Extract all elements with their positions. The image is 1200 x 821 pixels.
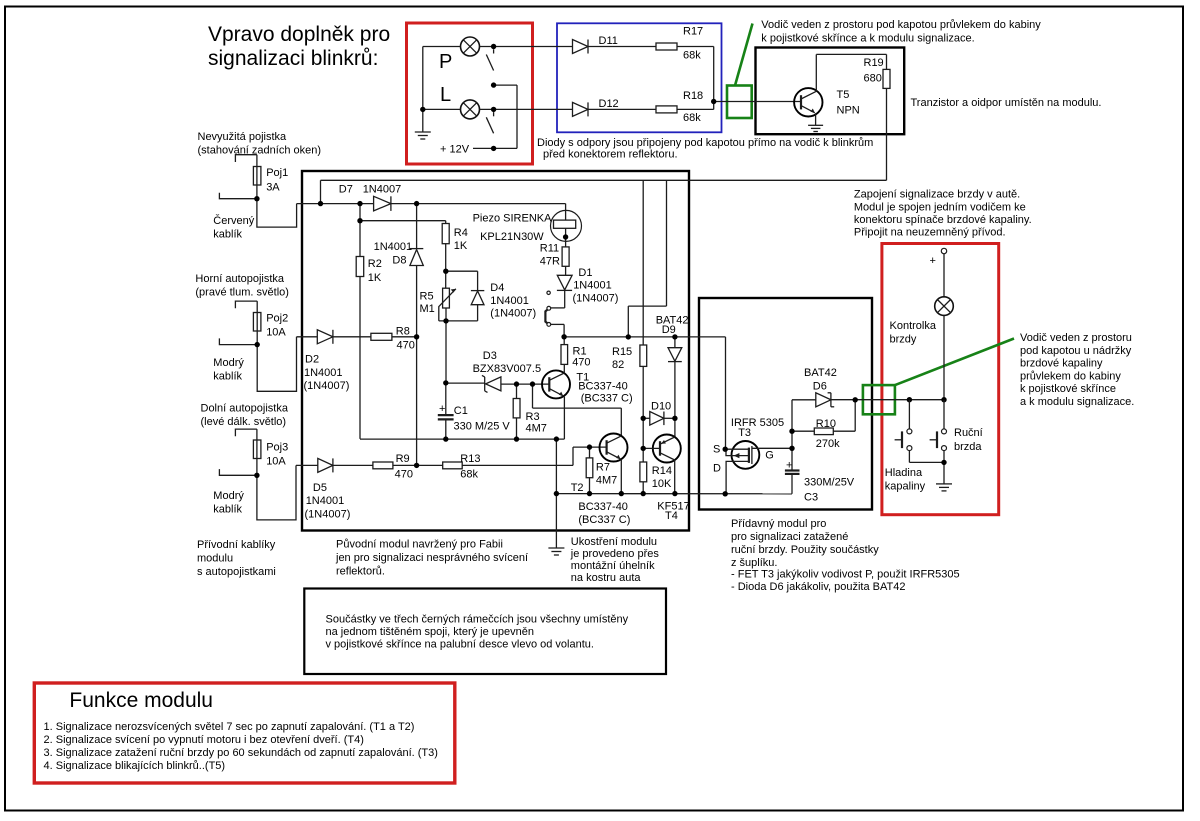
svg-text:(1N4007): (1N4007) — [304, 380, 350, 392]
svg-text:D1: D1 — [578, 267, 592, 279]
svg-text:D7: D7 — [339, 184, 353, 196]
svg-text:R4: R4 — [454, 227, 468, 239]
svg-text:T3: T3 — [738, 427, 751, 439]
svg-text:- FET T3 jakýkoliv vodivost P,: - FET T3 jakýkoliv vodivost P, použit IR… — [731, 569, 960, 581]
svg-text:M1: M1 — [420, 303, 435, 315]
svg-text:pod kapotou u nádržky: pod kapotou u nádržky — [1020, 345, 1132, 357]
svg-text:Ruční: Ruční — [954, 427, 983, 439]
svg-text:R15: R15 — [612, 346, 632, 358]
svg-text:68k: 68k — [460, 469, 478, 481]
svg-text:brzdové kapaliny: brzdové kapaliny — [1020, 358, 1103, 370]
svg-text:10A: 10A — [266, 456, 286, 468]
svg-text:Funkce modulu: Funkce modulu — [69, 689, 213, 712]
svg-text:R14: R14 — [652, 465, 672, 477]
svg-text:R17: R17 — [683, 26, 703, 38]
svg-text:brzda: brzda — [954, 441, 982, 453]
svg-text:D9: D9 — [662, 324, 676, 336]
svg-text:kablík: kablík — [213, 229, 242, 241]
svg-text:1K: 1K — [368, 272, 382, 284]
svg-text:Součástky ve třech černých rám: Součástky ve třech černých rámečcích jso… — [326, 613, 629, 625]
svg-text:R2: R2 — [368, 258, 382, 270]
svg-text:R13: R13 — [460, 453, 480, 465]
svg-text:k pojistkové skřínce a k modul: k pojistkové skřínce a k modulu signaliz… — [761, 32, 974, 44]
svg-text:Hladina: Hladina — [885, 467, 923, 479]
svg-text:R19: R19 — [864, 57, 884, 69]
svg-text:průvlekem do kabiny: průvlekem do kabiny — [1020, 370, 1121, 382]
svg-text:signalizaci blinkrů:: signalizaci blinkrů: — [208, 47, 378, 70]
svg-text:S: S — [713, 444, 720, 456]
svg-text:470: 470 — [395, 469, 413, 481]
svg-text:T4: T4 — [665, 510, 678, 522]
svg-text:Vodič veden z prostoru: Vodič veden z prostoru — [1020, 332, 1132, 344]
svg-text:10A: 10A — [266, 327, 286, 339]
svg-text:T2: T2 — [571, 482, 584, 494]
svg-text:Diody s odpory jsou připojeny: Diody s odpory jsou připojeny pod kapoto… — [537, 137, 873, 149]
svg-text:R10: R10 — [816, 418, 836, 430]
svg-text:kapaliny: kapaliny — [885, 481, 926, 493]
svg-text:NPN: NPN — [837, 105, 860, 117]
svg-text:z šuplíku.: z šuplíku. — [731, 557, 777, 569]
svg-text:Ukostření modulu: Ukostření modulu — [571, 536, 657, 548]
svg-text:modulu: modulu — [197, 553, 233, 565]
svg-text:pro signalizaci zatažené: pro signalizaci zatažené — [731, 531, 848, 543]
svg-text:Modul je spojen jedním vodičem: Modul je spojen jedním vodičem ke — [854, 202, 1026, 214]
svg-text:a k modulu signalizace.: a k modulu signalizace. — [1020, 396, 1134, 408]
svg-text:470: 470 — [572, 357, 590, 369]
svg-text:Poj2: Poj2 — [266, 313, 288, 325]
svg-text:Vpravo doplněk pro: Vpravo doplněk pro — [208, 23, 390, 46]
svg-text:L: L — [440, 84, 451, 106]
svg-text:v pojistkové skřínce na palubn: v pojistkové skřínce na palubní desce vl… — [326, 639, 594, 651]
svg-text:C3: C3 — [804, 492, 818, 504]
svg-text:R3: R3 — [526, 411, 540, 423]
svg-text:na kostru auta: na kostru auta — [571, 572, 642, 584]
svg-text:330 M/25 V: 330 M/25 V — [454, 421, 511, 433]
svg-text:KPL21N30W: KPL21N30W — [480, 231, 544, 243]
svg-text:Zapojení signalizace brzdy v a: Zapojení signalizace brzdy v autě. — [854, 189, 1020, 201]
svg-text:montážní úhelník: montážní úhelník — [571, 560, 655, 572]
svg-text:(1N4007): (1N4007) — [490, 308, 536, 320]
svg-text:kablík: kablík — [213, 504, 242, 516]
svg-text:68k: 68k — [683, 50, 701, 62]
svg-text:reflektorů.: reflektorů. — [336, 566, 385, 578]
svg-text:D11: D11 — [599, 35, 618, 47]
svg-text:680: 680 — [864, 73, 882, 85]
svg-text:330M/25V: 330M/25V — [804, 477, 855, 489]
svg-text:R5: R5 — [420, 291, 434, 303]
svg-text:+: + — [786, 460, 792, 472]
svg-text:Přívodní kablíky: Přívodní kablíky — [197, 539, 276, 551]
svg-text:Kontrolka: Kontrolka — [890, 320, 937, 332]
svg-text:4. Signalizace blikajících bli: 4. Signalizace blikajících blinkrů..(T5) — [44, 760, 226, 772]
svg-text:Piezo SIRENKA: Piezo SIRENKA — [473, 213, 553, 225]
svg-text:Modrý: Modrý — [213, 357, 244, 369]
svg-text:kablík: kablík — [213, 371, 242, 383]
svg-text:1N4001: 1N4001 — [374, 241, 413, 253]
svg-text:D8: D8 — [392, 255, 406, 267]
svg-text:k pojistkové skřínce: k pojistkové skřínce — [1020, 383, 1116, 395]
svg-text:1N4007: 1N4007 — [363, 184, 402, 196]
svg-text:(stahování zadních oken): (stahování zadních oken) — [198, 145, 322, 157]
svg-text:- Dioda D6 jakákoliv, použita: - Dioda D6 jakákoliv, použita BAT42 — [731, 581, 905, 593]
svg-text:1N4001: 1N4001 — [304, 367, 343, 379]
svg-text:Modrý: Modrý — [213, 490, 244, 502]
svg-text:+: + — [930, 255, 936, 267]
svg-text:(BC337 C): (BC337 C) — [581, 393, 633, 405]
svg-text:(1N4007): (1N4007) — [573, 293, 619, 305]
svg-text:R7: R7 — [596, 462, 610, 474]
svg-text:D3: D3 — [483, 350, 497, 362]
svg-text:10K: 10K — [652, 478, 672, 490]
svg-text:(1N4007): (1N4007) — [305, 509, 351, 521]
svg-text:R9: R9 — [396, 453, 410, 465]
svg-text:P: P — [439, 51, 452, 73]
svg-text:BZX83V007.5: BZX83V007.5 — [473, 363, 541, 375]
svg-text:Nevyužitá pojistka: Nevyužitá pojistka — [198, 131, 288, 143]
svg-text:D6: D6 — [813, 381, 827, 393]
svg-text:konektoru spínače brzdové kapa: konektoru spínače brzdové kapaliny. — [854, 214, 1032, 226]
svg-text:Připojit na neuzemněný přívod.: Připojit na neuzemněný přívod. — [854, 227, 1006, 239]
svg-text:jen pro signalizaci nesprávnéh: jen pro signalizaci nesprávného svícení — [335, 552, 528, 564]
svg-text:Dolní autopojistka: Dolní autopojistka — [201, 403, 289, 415]
svg-text:1K: 1K — [454, 240, 468, 252]
svg-text:před konektorem reflektoru.: před konektorem reflektoru. — [543, 149, 678, 161]
svg-text:4M7: 4M7 — [526, 423, 547, 435]
svg-text:G: G — [765, 450, 774, 462]
svg-text:Poj1: Poj1 — [266, 167, 288, 179]
svg-text:1N4001: 1N4001 — [490, 295, 529, 307]
svg-text:R18: R18 — [683, 90, 703, 102]
svg-text:D2: D2 — [305, 354, 319, 366]
svg-text:je provedeno přes: je provedeno přes — [570, 548, 660, 560]
svg-text:4M7: 4M7 — [596, 475, 617, 487]
svg-text:270k: 270k — [816, 438, 840, 450]
svg-text:BC337-40: BC337-40 — [578, 381, 628, 393]
svg-text:68k: 68k — [683, 112, 701, 124]
svg-text:BC337-40: BC337-40 — [578, 501, 628, 513]
svg-text:3A: 3A — [266, 182, 280, 194]
svg-text:D5: D5 — [313, 482, 327, 494]
svg-text:2. Signalizace svícení po vypn: 2. Signalizace svícení po vypnutí motoru… — [44, 734, 364, 746]
svg-text:47R: 47R — [540, 256, 560, 268]
svg-text:D10: D10 — [651, 400, 671, 412]
svg-text:Tranzistor a oidpor umístěn na: Tranzistor a oidpor umístěn na modulu. — [911, 97, 1102, 109]
svg-text:D12: D12 — [599, 98, 619, 110]
svg-text:470: 470 — [397, 340, 415, 352]
svg-text:brzdy: brzdy — [890, 334, 917, 346]
svg-text:3. Signalizace zatažení ruční: 3. Signalizace zatažení ruční brzdy po 6… — [44, 747, 438, 759]
svg-text:D: D — [713, 463, 721, 475]
svg-text:ruční brzdy. Použity součástky: ruční brzdy. Použity součástky — [731, 544, 879, 556]
svg-text:Původní modul navržený pro Fab: Původní modul navržený pro Fabii — [336, 539, 503, 551]
svg-text:1. Signalizace nerozsvícených: 1. Signalizace nerozsvícených světel 7 s… — [44, 721, 415, 733]
svg-text:Horní autopojistka: Horní autopojistka — [195, 273, 285, 285]
svg-text:(pravé tlum. světlo): (pravé tlum. světlo) — [195, 287, 289, 299]
svg-text:R11: R11 — [540, 243, 559, 255]
svg-text:1N4001: 1N4001 — [306, 495, 345, 507]
svg-text:Přídavný modul pro: Přídavný modul pro — [731, 518, 826, 530]
svg-text:BAT42: BAT42 — [804, 367, 837, 379]
svg-text:1N4001: 1N4001 — [573, 280, 612, 292]
svg-text:Vodič veden z prostoru pod kap: Vodič veden z prostoru pod kapotou průvl… — [761, 19, 1041, 31]
svg-text:82: 82 — [612, 359, 624, 371]
svg-text:+: + — [439, 403, 445, 415]
svg-text:+ 12V: + 12V — [440, 144, 470, 156]
svg-text:(levé dálk. světlo): (levé dálk. světlo) — [201, 416, 287, 428]
svg-text:C1: C1 — [454, 405, 468, 417]
svg-text:T5: T5 — [837, 89, 850, 101]
svg-text:D4: D4 — [490, 282, 504, 294]
svg-text:s autopojistkami: s autopojistkami — [197, 566, 276, 578]
svg-text:R8: R8 — [396, 326, 410, 338]
svg-text:(BC337 C): (BC337 C) — [578, 514, 630, 526]
svg-text:Červený: Červený — [213, 214, 254, 227]
svg-text:na jednom tištěném spoji, kter: na jednom tištěném spoji, který je upevn… — [326, 626, 535, 638]
svg-text:Poj3: Poj3 — [266, 442, 288, 454]
